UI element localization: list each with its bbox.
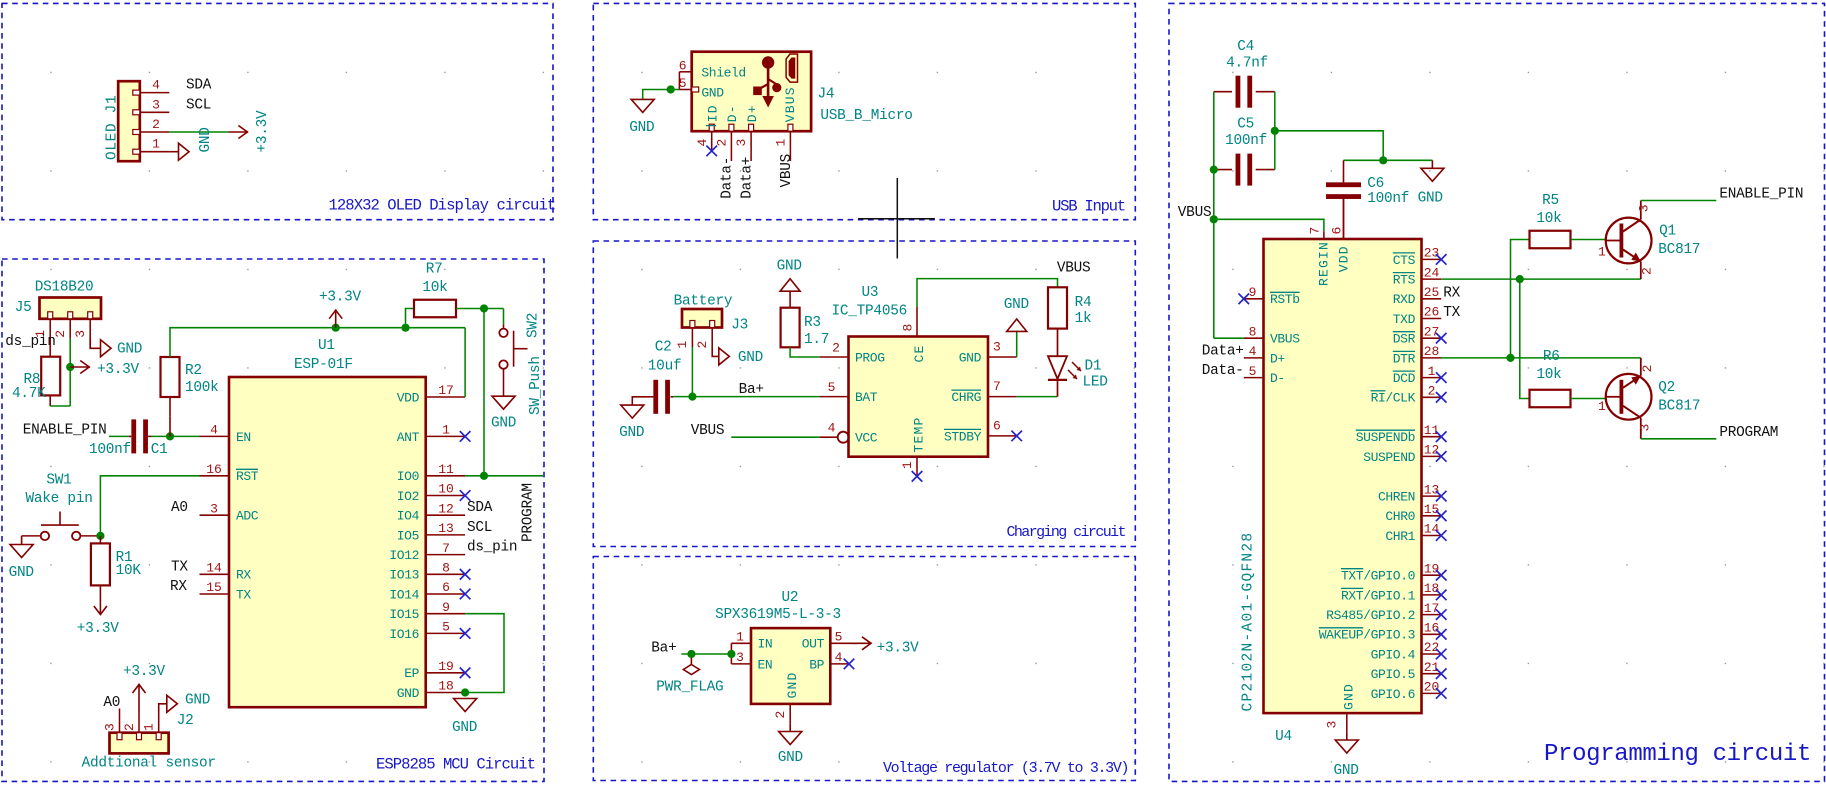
svg-text:GPIO.4: GPIO.4 [1371,647,1416,662]
wire J3 pin1 to BAT net [691,347,693,397]
svg-text:GND: GND [777,259,802,275]
resistor R8 [41,357,60,396]
IC U1 ESP-01F body [229,377,426,707]
svg-text:GND: GND [738,350,763,366]
U4 pin 8 VBUS stub [1244,337,1264,339]
svg-text:Charging circuit: Charging circuit [1007,524,1126,541]
U4 pin 22 GPIO.4 stub [1422,653,1442,655]
U1 pin 14 RX stub [200,573,230,575]
svg-text:OLED J1: OLED J1 [105,95,121,160]
svg-text:GND: GND [959,350,982,365]
svg-text:2: 2 [832,341,840,356]
no-connect TEMP [912,471,923,482]
J5 pin 3 stub [89,319,91,339]
power GND (J4) [631,99,654,112]
svg-text:VCC: VCC [855,431,878,446]
U2 pin 3 EN stub [731,663,751,665]
J3 pin 1 stub [691,328,693,348]
U2 pin 1 IN stub [731,642,751,644]
svg-text:D-: D- [1270,371,1285,386]
svg-text:J2: J2 [177,713,194,729]
svg-text:U1: U1 [318,338,335,354]
node junction rail to R7 [401,324,409,332]
svg-text:TX: TX [1443,305,1460,321]
U1 pin 5 IO16 stub [426,632,465,634]
no-connect EP [460,668,471,679]
svg-text:Voltage regulator (3.7V to 3.3: Voltage regulator (3.7V to 3.3V) [883,760,1128,777]
svg-text:2: 2 [695,341,710,349]
svg-text:9: 9 [1249,285,1257,300]
capacitor C4 [1214,91,1232,93]
svg-text:EN: EN [236,430,251,445]
svg-text:IN: IN [758,637,773,652]
wire R5 to Q1 base [1571,239,1606,241]
section frame: Programming circuit [1169,3,1825,781]
svg-text:IC_TP4056: IC_TP4056 [832,304,907,320]
svg-text:SCL: SCL [186,97,211,113]
svg-text:4: 4 [828,421,836,436]
svg-text:PROG: PROG [855,350,885,365]
U4 pin 2 RI/CLK stub [1422,396,1442,398]
svg-text:14: 14 [206,561,222,576]
U1 pin 10 IO2 stub [426,495,465,497]
svg-text:17: 17 [1424,601,1440,616]
resistor R5 [1530,231,1571,249]
svg-text:16: 16 [1424,621,1440,636]
svg-text:CHREN: CHREN [1378,490,1415,505]
svg-text:SW2: SW2 [526,313,542,338]
connector J3 Battery body [682,309,722,328]
node junction GND pin [461,688,469,696]
svg-text:IO12: IO12 [389,548,419,563]
J4 pin 6 Shield stub [679,71,691,73]
power GND (C2) [621,405,644,418]
svg-text:BAT: BAT [855,390,878,405]
svg-text:IO14: IO14 [389,587,419,602]
svg-text:U4: U4 [1275,729,1292,745]
no-connect DCD [1436,372,1447,383]
no-connect CHR1 [1436,530,1447,541]
connector J1 OLED body [118,81,140,161]
wire J2 pin3 / label A0 [119,709,121,714]
svg-text:14: 14 [1424,522,1440,537]
svg-text:11: 11 [1424,423,1440,438]
wire ENABLE_PIN to C1 [109,435,129,437]
capacitor C2 [651,396,654,398]
svg-text:27: 27 [1424,324,1440,339]
U3 pin 5 BAT stub [820,396,849,398]
svg-text:SPX3619M5-L-3-3: SPX3619M5-L-3-3 [715,607,841,623]
J4 pin 2 D- stub [730,131,732,161]
svg-text:2: 2 [122,723,137,731]
capacitor C6 [1343,160,1345,182]
svg-text:Addtional sensor: Addtional sensor [82,756,216,772]
svg-text:1: 1 [1428,364,1436,379]
U4 pin 4 D+ stub [1244,357,1264,359]
J1 pin 1 stub [140,151,170,153]
wire J5 pin3 to GND [90,339,100,349]
svg-text:Battery: Battery [674,293,733,309]
svg-text:DSR: DSR [1393,332,1416,347]
no-connect CTS [1436,254,1447,265]
svg-text:R7: R7 [426,262,443,278]
power +3.3V (U2 OUT) [852,642,871,644]
svg-text:RSTb: RSTb [1270,292,1300,307]
svg-text:2: 2 [1639,267,1654,275]
power GND (U1) [454,699,477,712]
svg-text:D1: D1 [1085,359,1102,375]
node junction J5 pin2 / +3.3V [66,363,74,371]
U4 pin 24 RTS stub [1422,278,1442,280]
svg-text:8: 8 [1249,324,1257,339]
wire VBUS rail to pin 8 [1214,337,1244,339]
svg-text:8: 8 [901,324,916,332]
U4 pin 1 DCD stub [1422,377,1442,379]
J2 pin 2 stub [138,713,140,733]
svg-text:EP: EP [404,666,419,681]
J4 pin 3 D+ stub [750,131,752,161]
node junction RTS/R6 [1516,275,1524,283]
svg-text:CHR0: CHR0 [1385,509,1415,524]
IC U3 IC_TP4056 body [849,337,989,457]
U1 pin 7 IO12 stub [426,554,465,556]
U1 pin 3 ADC stub [200,514,230,516]
U1 pin 6 IO14 stub [426,593,465,595]
svg-text:7: 7 [1307,227,1322,235]
svg-text:1: 1 [152,137,160,152]
svg-text:RI/CLK: RI/CLK [1371,391,1416,406]
svg-text:VBUS: VBUS [691,423,725,439]
svg-text:8: 8 [442,561,450,576]
svg-text:21: 21 [1424,660,1440,675]
svg-text:26: 26 [1424,305,1440,320]
U1 pin 1 ANT stub [426,435,465,437]
resistor R1 [99,536,101,544]
no-connect BP [844,659,855,670]
U4 pin 11 SUSPENDb stub [1422,436,1442,438]
J2 pin 1 stub [158,713,160,733]
switch SW1 Wake pin [22,535,41,537]
svg-text:USB_B_Micro: USB_B_Micro [820,108,912,124]
U4 pin 17 RS485/GPIO.2 stub [1422,614,1442,616]
svg-text:100nf: 100nf [1367,191,1409,207]
svg-text:12: 12 [1424,443,1440,458]
svg-text:2: 2 [715,139,730,147]
U4 pin 13 CHREN stub [1422,495,1442,497]
svg-text:10uf: 10uf [648,359,682,375]
svg-text:IO0: IO0 [397,469,419,484]
resistor R3 [781,308,800,348]
no-connect IO13 [460,569,471,580]
svg-text:28: 28 [1424,344,1440,359]
wire VDD to rail [464,328,466,397]
no-connect RS485/GPIO.2 [1436,609,1447,620]
no-connect IO14 [460,589,471,600]
power flag PWR_FLAG [690,658,692,665]
svg-text:GND: GND [9,565,34,581]
svg-text:6: 6 [993,418,1001,433]
no-connect IO2 [460,490,471,501]
node junction right rail [1271,127,1279,135]
svg-text:11: 11 [438,462,454,477]
svg-text:1: 1 [1598,399,1606,414]
U1 pin 4 EN stub [200,435,230,437]
power +3.3V (OLED) [228,131,247,133]
svg-text:ESP8285 MCU Circuit: ESP8285 MCU Circuit [376,756,535,774]
no-connect GPIO.5 [1436,668,1447,679]
svg-text:4.7K: 4.7K [12,386,46,402]
svg-text:100k: 100k [185,380,219,396]
svg-text:DCD: DCD [1393,371,1416,386]
svg-text:J3: J3 [731,318,748,334]
svg-text:15: 15 [1424,502,1440,517]
wire GND pin up [1016,331,1018,357]
svg-text:6: 6 [1330,227,1345,235]
svg-text:3: 3 [993,340,1001,355]
svg-text:100nf: 100nf [1225,133,1267,149]
svg-text:Data+: Data+ [739,157,755,199]
wire IN-EN bracket [730,643,732,664]
resistor R6 [1530,390,1571,408]
wire IO15 to GND pin loop [465,614,504,693]
svg-text:TX: TX [236,587,251,602]
wire IO0 / PROGRAM [465,475,543,477]
node junction C1/R2/EN [166,432,174,440]
wire RTS to R6 [1520,279,1530,398]
svg-text:R5: R5 [1542,193,1559,209]
U4 pin 3 GND stub [1346,713,1348,733]
svg-text:1: 1 [900,461,915,469]
wire Ba+ to U2 [681,653,731,655]
svg-text:U3: U3 [862,285,879,301]
svg-text:TXT/GPIO.0: TXT/GPIO.0 [1341,569,1415,584]
resistor R4 [1048,287,1067,328]
no-connect GPIO.4 [1436,649,1447,660]
svg-text:J4: J4 [818,86,835,102]
svg-text:7: 7 [442,541,450,556]
node junction U2 input [727,650,735,658]
svg-text:GND: GND [629,120,654,136]
IC U4 CP2102N body [1264,239,1422,713]
svg-text:1: 1 [774,139,789,147]
svg-text:10k: 10k [422,280,447,296]
node junction R7/SW2/IO0 [480,304,488,312]
svg-text:GND: GND [785,671,800,698]
svg-text:5: 5 [835,629,843,644]
wire C2 left to GND [632,397,651,405]
J3 pin 2 stub [711,328,713,348]
svg-text:SDA: SDA [186,78,212,94]
J1 pin 4 stub [140,92,170,94]
svg-text:C2: C2 [655,340,672,356]
svg-text:CE: CE [912,344,927,362]
wire right rail to C6/GND net [1275,131,1383,161]
no-connect CHR0 [1436,511,1447,522]
svg-text:10k: 10k [1536,211,1561,227]
svg-text:3: 3 [1637,204,1652,212]
svg-text:GPIO.5: GPIO.5 [1371,667,1415,682]
svg-text:TX: TX [171,559,188,575]
svg-text:OUT: OUT [802,637,825,652]
svg-text:13: 13 [1424,482,1440,497]
svg-text:RST: RST [236,469,259,484]
svg-text:BC817: BC817 [1658,242,1700,258]
svg-text:USB Input: USB Input [1052,198,1125,216]
svg-text:10k: 10k [1536,367,1561,383]
svg-text:24: 24 [1424,265,1440,280]
power +3.3V (R1) [99,586,101,598]
U4 pin 25 RXD stub [1422,298,1442,300]
no-connect DSR [1436,333,1447,344]
svg-text:EN: EN [758,657,773,672]
svg-text:ADC: ADC [236,509,259,524]
U1 pin 19 EP stub [426,672,465,674]
power GND (SW2) [492,396,515,409]
svg-text:Data-: Data- [720,157,736,199]
svg-text:PWR_FLAG: PWR_FLAG [656,680,723,696]
svg-text:1.7: 1.7 [804,332,829,348]
svg-text:D+: D+ [1270,351,1285,366]
svg-text:Q1: Q1 [1659,224,1676,240]
wire DTR to R5 [1511,240,1530,358]
capacitor C1 [129,435,132,437]
U4 pin 21 GPIO.5 stub [1422,673,1442,675]
U3 pin 4 VCC stub with bubble [820,436,838,438]
wire RST to SW1 [100,476,199,536]
svg-text:1: 1 [736,629,744,644]
svg-text:VBUS: VBUS [1178,205,1212,221]
svg-text:D-: D- [725,104,740,122]
svg-text:GND: GND [491,416,516,432]
svg-text:IO13: IO13 [389,568,419,583]
svg-text:SUSPEND: SUSPEND [1363,450,1415,465]
svg-text:4: 4 [210,423,218,438]
U4 pin 26 TXD stub [1422,318,1442,320]
wire R2 top to +3.3V rail [170,328,465,357]
wire Q2 emitter PROGRAM [1641,438,1717,440]
svg-text:GND: GND [778,750,803,766]
svg-text:1: 1 [675,341,690,349]
svg-text:19: 19 [438,659,454,674]
svg-text:+3.3V: +3.3V [97,362,140,378]
wire R3 to PROG [790,347,820,357]
svg-text:RS485/GPIO.2: RS485/GPIO.2 [1326,608,1415,623]
svg-text:12: 12 [438,501,454,516]
section frame: Charging circuit [593,241,1135,547]
svg-text:GND: GND [1004,297,1029,313]
svg-text:19: 19 [1424,561,1440,576]
svg-text:2: 2 [1640,365,1655,373]
svg-text:7: 7 [993,379,1001,394]
power GND (J3) [712,347,719,356]
U4 pin 19 TXT/GPIO.0 stub [1422,574,1442,576]
svg-text:GND: GND [619,425,644,441]
wire junction down to IO0 [483,309,485,476]
svg-text:R6: R6 [1543,349,1560,365]
IC U2 SPX3619 body [751,628,830,704]
no-connect RI/CLK [1436,392,1447,403]
svg-text:IO15: IO15 [389,607,419,622]
svg-text:GND: GND [185,693,210,709]
svg-text:TEMP: TEMP [912,416,927,452]
svg-text:1k: 1k [1075,311,1092,327]
svg-text:GND: GND [1418,191,1443,207]
U2 pin 4 BP stub [830,663,849,665]
svg-text:2: 2 [773,711,788,719]
svg-text:Wake pin: Wake pin [26,491,93,507]
svg-text:RX: RX [236,568,251,583]
U3 pin 2 PROG stub [820,356,849,358]
svg-text:1: 1 [442,423,450,438]
power +3.3V (ESP rail) [335,311,337,328]
svg-text:GND: GND [452,720,477,736]
svg-text:4.7nf: 4.7nf [1226,56,1268,72]
capacitor C5 [1214,169,1232,171]
section frame: ESP8285 MCU Circuit [2,259,544,781]
svg-text:RXD: RXD [1393,292,1416,307]
J4 pin 5 GND stub [679,89,691,91]
no-connect STDBY [1011,431,1022,442]
svg-text:10K: 10K [116,563,142,579]
USB icon (trident) [753,56,781,107]
svg-text:128X32 OLED Display circuit: 128X32 OLED Display circuit [329,197,556,215]
U2 pin 2 GND stub [789,704,791,724]
svg-text:SW_Push: SW_Push [528,356,544,415]
svg-text:4: 4 [695,139,710,147]
U4 pin 6 VDD stub [1343,196,1345,239]
svg-text:3: 3 [736,650,744,665]
svg-text:CTS: CTS [1393,253,1416,268]
svg-text:3: 3 [1325,721,1340,729]
resistor R7 [414,300,456,318]
no-connect ID [706,146,717,157]
wire junction to SW2 [484,308,504,310]
svg-text:9: 9 [442,600,450,615]
svg-text:3: 3 [103,723,118,731]
no-connect TXT/GPIO.0 [1436,570,1447,581]
svg-text:Programming circuit: Programming circuit [1544,741,1811,768]
wire J5 pin1 to R8 [49,339,51,357]
svg-text:4: 4 [152,78,160,93]
power GND (SW1) [21,536,23,545]
U4 pin 5 D- stub [1244,377,1264,379]
svg-text:18: 18 [1424,581,1440,596]
wire DTR net [1441,357,1641,359]
svg-text:J5: J5 [15,300,32,316]
svg-text:RTS: RTS [1393,273,1416,288]
svg-text:20: 20 [1424,680,1440,695]
svg-text:GND: GND [397,686,420,701]
svg-text:17: 17 [438,383,454,398]
U4 pin 9 RSTb stub [1244,298,1264,300]
svg-text:IO5: IO5 [397,528,419,543]
svg-text:ENABLE_PIN: ENABLE_PIN [23,422,107,438]
U1 pin 17 VDD stub [426,396,465,398]
svg-text:2: 2 [53,330,68,338]
svg-text:TXD: TXD [1393,312,1416,327]
svg-text:+3.3V: +3.3V [319,289,362,305]
svg-text:C4: C4 [1237,39,1254,55]
U2 pin 5 OUT stub [830,642,856,644]
wire Shield to GND pin [678,72,680,90]
node junction rail +3.3V symbol [332,324,340,332]
U4 pin 27 DSR stub [1422,337,1442,339]
svg-text:SUSPENDb: SUSPENDb [1356,430,1415,445]
svg-text:DTR: DTR [1393,351,1416,366]
svg-text:3: 3 [210,501,218,516]
J4 pin 1 VBUS stub [789,131,791,161]
svg-text:25: 25 [1424,285,1440,300]
